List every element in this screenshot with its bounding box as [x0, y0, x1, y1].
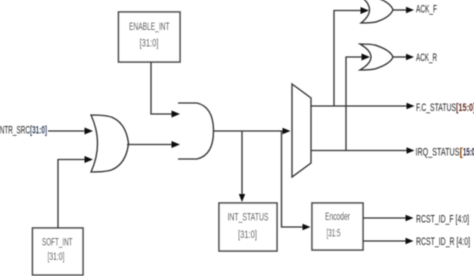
svg-text:ENABLE_INT: ENABLE_INT [129, 21, 170, 33]
svg-text:[31:5: [31:5 [327, 228, 341, 240]
svg-text:RCST_ID_R [4:0]: RCST_ID_R [4:0] [416, 236, 470, 248]
svg-text:RCST_ID_F [4:0]: RCST_ID_F [4:0] [416, 214, 469, 226]
svg-text:IRQ_STATUS[15:0: IRQ_STATUS[15:0 [416, 147, 474, 159]
svg-text:ACK_F: ACK_F [416, 4, 437, 16]
svg-text:ACK_R: ACK_R [416, 52, 437, 64]
svg-text:INT_STATUS: INT_STATUS [228, 212, 269, 224]
svg-text:Encoder: Encoder [325, 211, 350, 223]
svg-text:[31:0]: [31:0] [238, 229, 257, 241]
svg-text:SOFT_INT: SOFT_INT [42, 237, 73, 249]
svg-text:INTR_SRC[31:0]: INTR_SRC[31:0] [0, 125, 47, 137]
svg-text:[31:0]: [31:0] [140, 38, 159, 50]
svg-text:[31:0]: [31:0] [48, 251, 65, 263]
svg-text:F.C_STATUS[15:0]: F.C_STATUS[15:0] [416, 102, 474, 114]
